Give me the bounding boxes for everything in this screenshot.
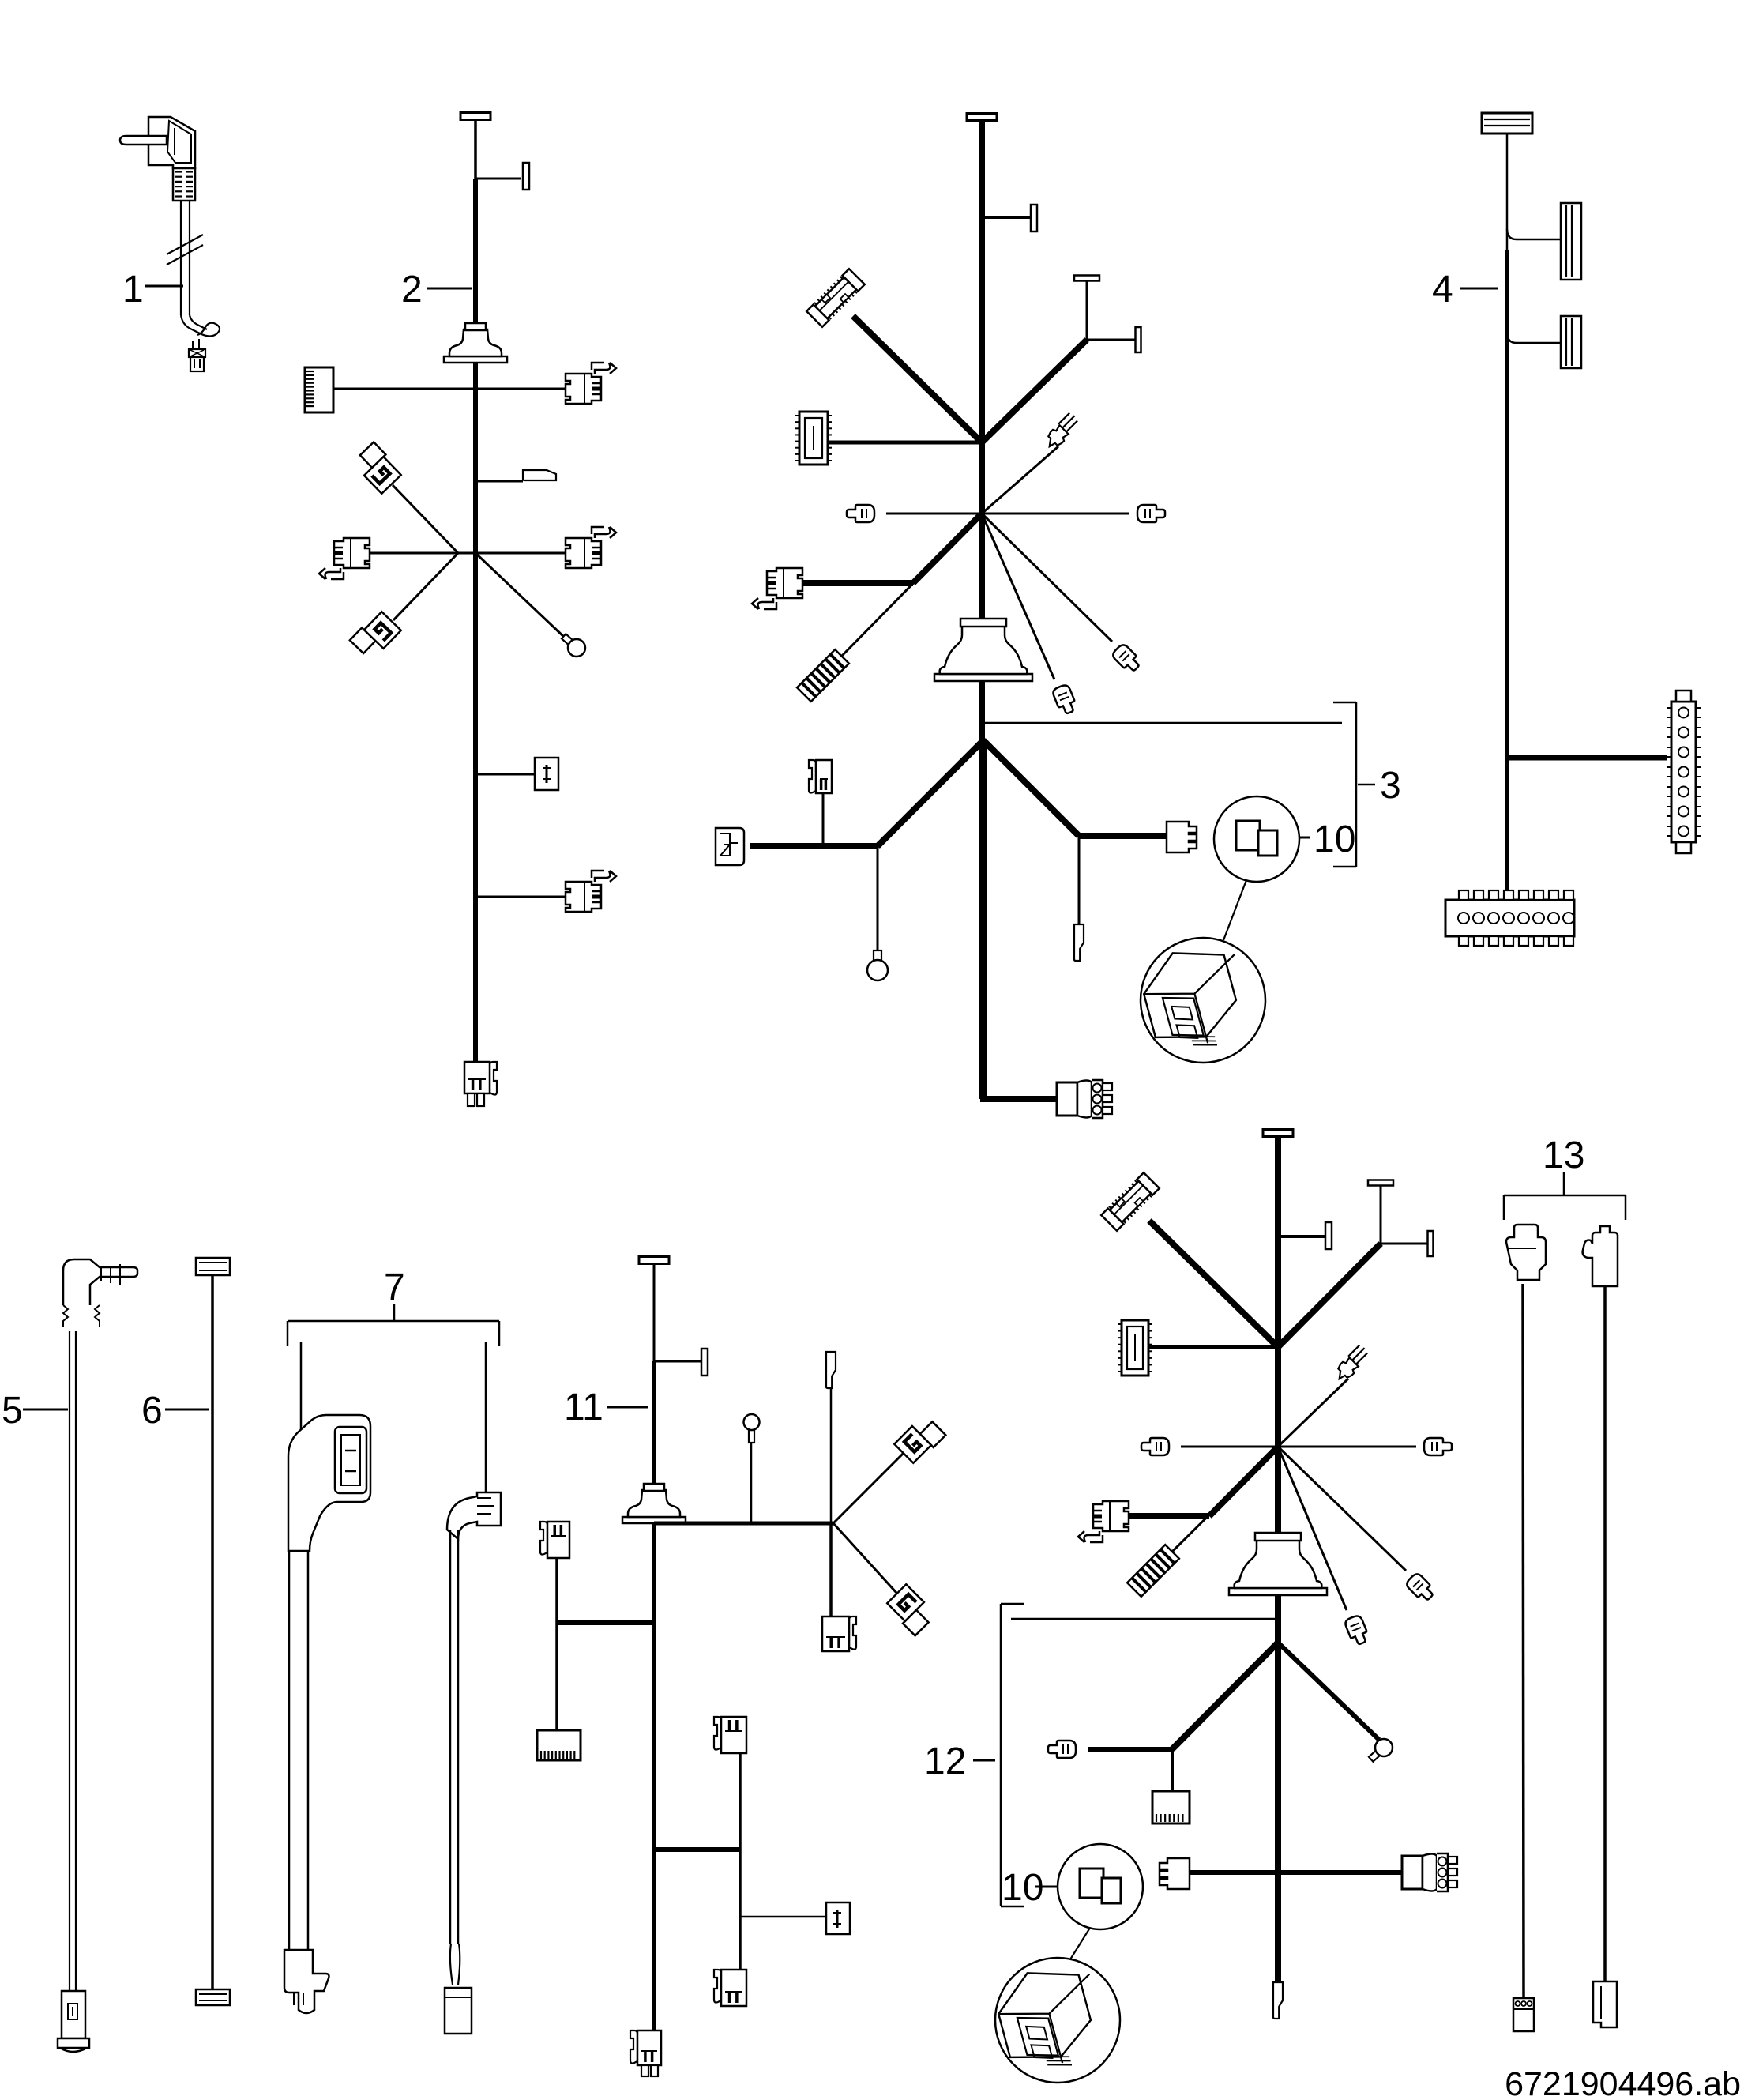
svg-text:1: 1 — [122, 269, 144, 310]
svg-text:13: 13 — [1543, 1135, 1584, 1176]
svg-text:6721904496.ab: 6721904496.ab — [1505, 2065, 1741, 2100]
svg-text:3: 3 — [1380, 765, 1401, 807]
svg-text:10: 10 — [1314, 819, 1355, 860]
svg-text:10: 10 — [1002, 1867, 1043, 1909]
svg-text:5: 5 — [2, 1390, 23, 1432]
svg-text:2: 2 — [401, 269, 423, 310]
svg-text:6: 6 — [141, 1390, 163, 1432]
svg-text:11: 11 — [564, 1387, 603, 1428]
svg-text:4: 4 — [1432, 269, 1453, 310]
svg-text:7: 7 — [384, 1266, 405, 1308]
svg-text:12: 12 — [924, 1741, 966, 1782]
